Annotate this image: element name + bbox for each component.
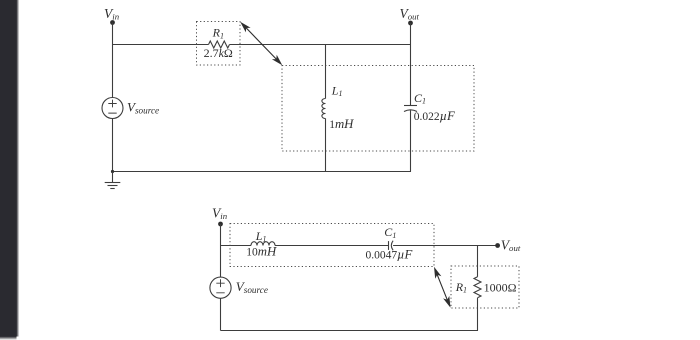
- node Vin (bottom circuit) label: [212, 206, 228, 222]
- wire: left rail upper (bottom circuit): [220, 224, 222, 277]
- svg-text:Vin: Vin: [212, 206, 228, 222]
- node Vin (top circuit) label: [104, 6, 120, 22]
- node Vout terminal dot (bottom): [495, 243, 500, 248]
- node Vin terminal dot (bottom): [218, 222, 223, 227]
- svg-text:Vin: Vin: [104, 6, 120, 22]
- wire: bottom rail (bottom circuit): [221, 330, 479, 332]
- resistor R1 (top circuit, 2.7k): [209, 41, 230, 48]
- wire: bottom rail (top circuit): [113, 171, 412, 173]
- svg-text:R1: R1: [455, 280, 467, 295]
- wire: top rail right (R1 to Vout node): [230, 44, 411, 46]
- svg-text:0.0047µF: 0.0047µF: [366, 248, 413, 262]
- capacitor C1 (bottom circuit, horizontal): [389, 241, 394, 251]
- wire: main rail C1 to Vout: [393, 245, 497, 247]
- inductor L1 (bottom circuit, horizontal): [251, 242, 275, 246]
- label R1 (bottom circuit): [455, 280, 467, 295]
- value label 1mH: [329, 117, 354, 131]
- label R1 (top circuit): [212, 26, 224, 41]
- svg-text:L1: L1: [331, 83, 343, 98]
- dashed box around L1 C1 (top circuit): [282, 66, 474, 152]
- wire: top rail left (Vin to R1): [113, 44, 209, 46]
- source V_source (top circuit): [102, 98, 123, 119]
- wire: L1 branch upper stub: [325, 45, 327, 99]
- wire: R1 branch lower stub (bottom circuit): [477, 298, 479, 331]
- wire: left rail lower (Vsource to bottom rail): [112, 119, 114, 172]
- svg-text:1000Ω: 1000Ω: [484, 280, 517, 294]
- value label 1000Ohm: [484, 280, 517, 294]
- node Vout (bottom circuit) label: [501, 238, 521, 254]
- svg-text:Vout: Vout: [501, 238, 521, 254]
- inductor L1 (top circuit, vertical): [322, 99, 326, 119]
- svg-text:10mH: 10mH: [246, 245, 277, 259]
- svg-text:0.022µF: 0.022µF: [414, 109, 455, 123]
- label L1 (bottom circuit): [255, 229, 267, 243]
- arrow between R1 box and LC box (top circuit): [240, 22, 282, 66]
- junction dot at ground corner: [111, 170, 114, 173]
- dashed box around L1 C1 (bottom circuit): [230, 224, 434, 267]
- value label 2.7kOhm: [204, 46, 233, 60]
- value label 0.0047uF: [366, 248, 413, 262]
- svg-text:1mH: 1mH: [329, 117, 354, 131]
- label V_source (top circuit): [127, 99, 159, 115]
- value label 0.022uF: [414, 109, 455, 123]
- wire: Vout/C1 branch lower: [410, 110, 412, 171]
- dashed box around R1 (top circuit): [197, 22, 241, 66]
- source V_source (bottom circuit): [210, 277, 231, 298]
- svg-text:C1: C1: [384, 225, 396, 240]
- label V_source (bottom circuit): [236, 279, 268, 295]
- label C1 (bottom circuit): [384, 225, 396, 240]
- node Vout terminal dot: [408, 21, 413, 26]
- resistor R1 (bottom circuit, 1000 ohm, vertical): [474, 277, 481, 298]
- svg-text:R1: R1: [212, 26, 224, 41]
- node Vin terminal dot: [110, 20, 115, 25]
- label C1 (top circuit): [414, 91, 426, 106]
- svg-text:2.7kΩ: 2.7kΩ: [204, 46, 233, 60]
- node Vout (top circuit) label: [400, 6, 420, 22]
- capacitor C1 (top circuit): [404, 106, 417, 112]
- wire: main rail L1 to C1: [275, 245, 388, 247]
- svg-text:Vsource: Vsource: [236, 279, 268, 295]
- wire: L1 branch lower stub: [325, 119, 327, 172]
- arrow between LC box and R1 box (bottom circuit): [434, 267, 451, 308]
- dashed box around R1 (bottom circuit): [451, 266, 519, 308]
- value label 10mH: [246, 245, 277, 259]
- wire: R1 branch upper stub (bottom circuit): [477, 246, 479, 277]
- wire: Vout/C1 branch upper: [410, 23, 412, 105]
- svg-text:Vsource: Vsource: [127, 99, 159, 115]
- svg-text:L1: L1: [255, 229, 267, 243]
- sidebar dark panel: [0, 0, 19, 340]
- svg-text:C1: C1: [414, 91, 426, 106]
- wire: main rail Vin to L1: [221, 245, 252, 247]
- svg-text:Vout: Vout: [400, 6, 420, 22]
- ground symbol: [105, 172, 121, 189]
- wire: left rail lower (bottom circuit): [220, 298, 222, 330]
- label L1 (top circuit): [331, 83, 343, 98]
- wire: left rail upper (Vin to Vsource): [112, 23, 114, 98]
